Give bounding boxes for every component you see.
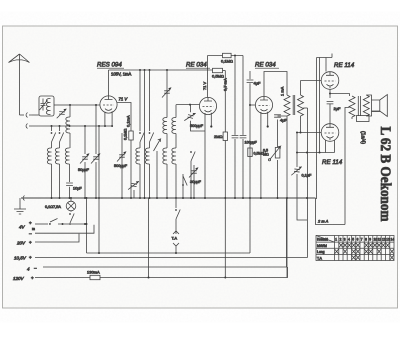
speaker LS (366, 95, 387, 117)
column 140 : switch + coil (139, 70, 141, 131)
resistor R10 box (248, 148, 252, 157)
wire V3 grid stub (250, 104, 255, 106)
wire plug to input box (32, 114, 39, 116)
tube V5 cathode (327, 136, 334, 140)
wire anode feed y=55.5 (208, 55, 244, 57)
node dot feed rail (234, 55, 236, 57)
TA connectors (173, 231, 179, 253)
capacitor C9 plates (247, 80, 254, 82)
wire R3 to column (223, 70, 226, 72)
resistor R3 box (213, 68, 223, 72)
main ground bus (21, 197, 316, 199)
node (69, 104, 71, 106)
bus plug connector (23, 196, 25, 201)
wire V3 filament legs down (261, 112, 268, 198)
column 194 trimmer (193, 165, 195, 198)
transformer frame (357, 116, 370, 122)
top bar right (317, 54, 333, 58)
wire V1 top to AVC rail (108, 70, 110, 96)
tube V4 cathode (327, 84, 334, 88)
input tank box (39, 96, 54, 116)
trimmer C7 grid (191, 105, 206, 131)
tube V4 grid (325, 80, 336, 82)
tube V3 RE034 envelope (255, 96, 272, 113)
tube V5 grid (325, 132, 336, 134)
tube V3 anode (260, 96, 268, 100)
capacitor C8 (240, 136, 247, 138)
tube V1 grid (103, 104, 114, 106)
wire C11 to V5 (329, 104, 331, 124)
dial lamp (70, 198, 72, 201)
supply row 4V (35, 223, 48, 225)
wire AVC rail y=70 (109, 69, 213, 71)
supply row 105V (35, 257, 308, 259)
tube V1 RES094 envelope (100, 96, 117, 113)
switch S2 (59, 126, 61, 131)
table texts (13, 59, 394, 282)
bias row 253 (87, 252, 251, 254)
column 316.5 (316, 58, 318, 200)
TR2 secondary tap (303, 107, 307, 109)
TA branch (175, 198, 177, 208)
wire V3 anode up and right (264, 72, 287, 97)
column 167 : trimmer + coil (166, 70, 168, 118)
wire V4 to transformer (330, 94, 349, 97)
tube V2 RE034 envelope (199, 97, 216, 114)
tube V1 cathode (105, 109, 112, 111)
coil L2 antenna coupling (69, 105, 71, 117)
wire antenna to input connector (20, 114, 25, 116)
wire V4 grid left (301, 80, 322, 82)
column 191 switch (190, 163, 192, 198)
column 183 switch (182, 176, 184, 198)
tube V1 anode (105, 96, 113, 100)
column 250 grid cap (249, 71, 251, 253)
trimmer C2 (57, 108, 67, 118)
resistor R2 box (223, 53, 232, 57)
switch S1 (51, 126, 53, 131)
column 157 arrow switch (156, 151, 158, 198)
column 326 anode top (325, 58, 327, 72)
wire primary bottom (345, 108, 349, 225)
wire to V2 grid (176, 104, 199, 106)
tube V3 cathode (261, 109, 268, 111)
wire box to grid line (54, 104, 70, 106)
capacitor C11 (327, 102, 334, 104)
column 144.5 plain (144, 70, 146, 198)
wire input line y=126 (32, 125, 112, 127)
riser 99 (98, 126, 100, 253)
supply row 120V (35, 267, 288, 278)
column 243 : capacitor (242, 56, 244, 199)
capacitor C14 (232, 136, 239, 138)
table frame (316, 236, 394, 261)
coil L5 (65, 148, 69, 164)
column 319.5 (319, 58, 321, 153)
riser 86.5 bus to bias row (86, 198, 88, 253)
wire R6 bottom (286, 116, 288, 278)
variable capacitor C1 in box (40, 99, 48, 111)
column 225.3 : resistor box (224, 71, 226, 278)
table X marks row Lang (335, 249, 339, 253)
table X marks row MW (335, 243, 394, 260)
transformer secondary (365, 94, 367, 96)
trimmer C6 column (95, 105, 97, 198)
TR2 secondary winding (300, 81, 302, 96)
resistor R9 box (90, 275, 100, 279)
tube V2 anode (204, 97, 212, 101)
column 297 with trimmer cap (297, 133, 307, 221)
column 148.5 down (148, 198, 150, 278)
trimmer C5 column (84, 126, 86, 198)
transformer core (358, 96, 360, 116)
node dots columns on AVC rail (139, 69, 141, 71)
wire V1 anode right (117, 103, 131, 199)
volume pot R7 (277, 160, 279, 198)
wire V2 anode up (207, 56, 209, 98)
wire V1 filament legs down (105, 111, 112, 126)
supply row 4- (43, 198, 287, 267)
earth plug connector (26, 124, 32, 129)
column 307 riser (307, 108, 309, 258)
coil L4 (55, 148, 59, 164)
tube V4 RE114 envelope (321, 72, 339, 90)
capacitor C3 on column 69.5 (66, 183, 73, 185)
capacitor C10 (278, 116, 288, 147)
column 176 : coil to T2 grid (175, 105, 177, 118)
column 149.5 : switch + coil (149, 70, 151, 131)
coil L3 (47, 148, 51, 164)
antenna (9, 54, 30, 115)
output transformer T1 primary (349, 96, 355, 117)
coil L1 in box (46, 98, 50, 114)
tube V2 grid (203, 106, 214, 108)
tube V4 anode (326, 72, 334, 76)
bus node dots (51, 197, 53, 199)
trimmer C4 column x=122 (121, 133, 123, 198)
resistor R1 box (129, 131, 133, 140)
trimmer C13 column 134 (133, 190, 135, 198)
supply row 20V (35, 234, 79, 242)
table X marks row TA (352, 255, 356, 259)
tube V2 cathode (205, 110, 212, 112)
tube V5 anode (326, 124, 334, 128)
supply row minus (35, 225, 94, 233)
wire grid line T1 (70, 104, 100, 106)
node (189, 104, 191, 106)
tube V3 grid (259, 105, 270, 107)
resistor R4 box (223, 132, 227, 141)
column 235 : capacitor (234, 56, 236, 199)
wire V4 anode down (329, 89, 331, 98)
zigzag R6 (284, 95, 290, 116)
antenna plug connector (26, 113, 32, 118)
switch S3 below lamp (70, 211, 72, 212)
wire cathode row y=152.5 (297, 152, 335, 154)
wire V5 bottom stubs (326, 140, 335, 153)
wire V5 grid left (297, 132, 321, 134)
ground symbol (14, 198, 26, 214)
bus right end corner (316, 198, 346, 225)
interstage transformer TR2 core (293, 95, 295, 115)
tube V5 RE114 envelope (321, 124, 339, 142)
wire V2 filament legs down (205, 113, 211, 198)
node dots on input line (51, 125, 53, 127)
